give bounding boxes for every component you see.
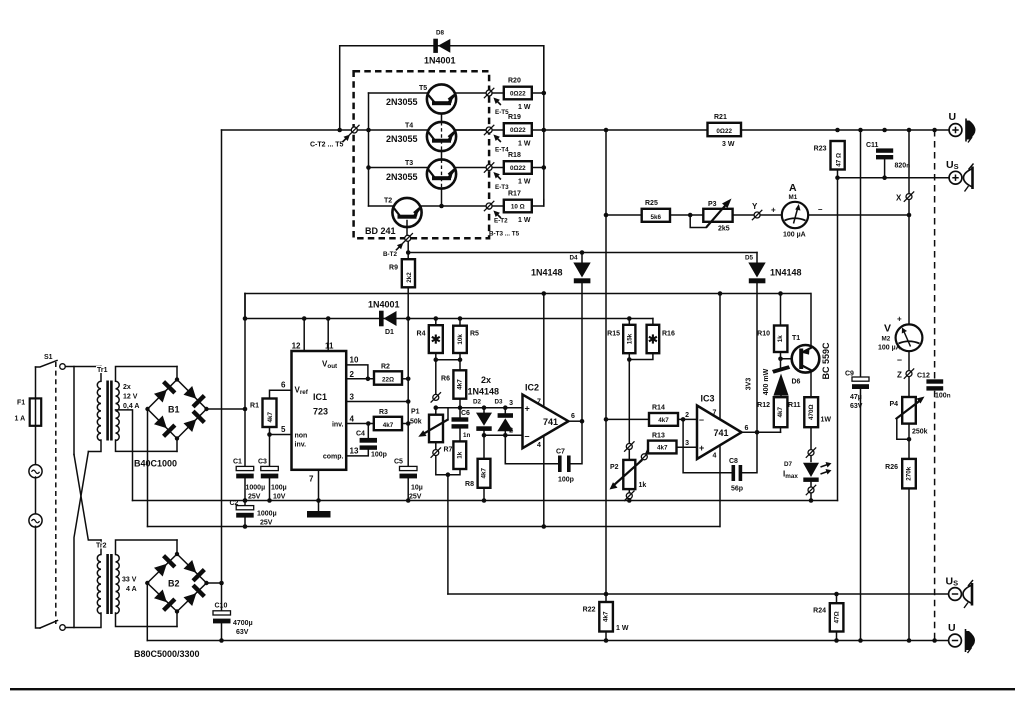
svg-text:2N3055: 2N3055 [386, 97, 418, 107]
wire: R4/R5 bottom link [436, 359, 460, 361]
IC1 723 voltage regulator [281, 342, 359, 484]
svg-text:R18: R18 [508, 152, 521, 159]
fuse F1 1A [15, 398, 42, 425]
wire: 0V rail of 12V section [133, 500, 838, 502]
svg-text:1 W: 1 W [518, 217, 531, 224]
svg-text:470Ω: 470Ω [808, 404, 815, 420]
svg-text:4k7: 4k7 [267, 411, 274, 422]
svg-text:U: U [948, 622, 956, 634]
resistor R14 4k7 [604, 405, 697, 426]
diode D8 1N4001 [424, 30, 456, 66]
svg-text:Tr2: Tr2 [96, 543, 107, 550]
B2 diode bottom-left [154, 590, 167, 603]
svg-text:B1: B1 [168, 405, 180, 415]
resistor R2 22R [374, 364, 408, 385]
wire: V meter column [908, 351, 910, 397]
dashed case/chassis line [934, 130, 936, 379]
svg-text:1 W: 1 W [518, 179, 531, 186]
transistor T5 2N3055 [386, 84, 486, 113]
wire: crossover column from top contact [73, 367, 75, 455]
svg-text:IC2: IC2 [525, 383, 539, 393]
svg-text:2k2: 2k2 [406, 272, 413, 283]
svg-text:3: 3 [350, 393, 355, 402]
svg-text:Tr1: Tr1 [97, 367, 108, 374]
dashed enclosure of power transistors [354, 71, 490, 238]
svg-text:2N3055: 2N3055 [386, 172, 418, 182]
diode D2 1N4148 [473, 399, 492, 459]
svg-text:47µ: 47µ [850, 394, 862, 401]
svg-text:2N3055: 2N3055 [386, 134, 418, 144]
wire: IC1 pin 7 to ground rail [318, 470, 320, 511]
wire: Tr1 primary bottom lead [88, 440, 101, 452]
svg-text:D7: D7 [784, 461, 793, 468]
svg-text:56p: 56p [731, 486, 743, 493]
svg-text:+: + [699, 443, 704, 453]
svg-text:4k7: 4k7 [657, 445, 668, 452]
node E-T2 [486, 203, 492, 209]
svg-text:R15: R15 [607, 331, 620, 338]
transformer Tr2 [96, 540, 177, 627]
wire: IC3 output [742, 431, 781, 433]
svg-text:250k: 250k [912, 429, 928, 436]
wire: Vcc line (IC1 pins 12/11, D1) [245, 318, 653, 320]
svg-text:11: 11 [325, 342, 334, 351]
svg-text:1 W: 1 W [518, 141, 531, 148]
svg-text:1N4148: 1N4148 [770, 268, 802, 278]
svg-text:C11: C11 [866, 142, 879, 149]
transistor T1 BC559C [781, 294, 832, 398]
svg-text:4k7: 4k7 [383, 422, 394, 429]
svg-text:D5: D5 [745, 255, 754, 262]
node pin3 sense [406, 399, 411, 404]
svg-text:R4: R4 [417, 331, 426, 338]
svg-text:T3: T3 [405, 160, 413, 167]
svg-text:C3: C3 [258, 459, 267, 466]
svg-text:R2: R2 [381, 364, 390, 371]
capacitor C8 56p (feedback) [683, 419, 757, 492]
svg-text:inv.: inv. [332, 422, 344, 429]
svg-text:7: 7 [713, 410, 717, 417]
wire: B1 plus output [207, 408, 246, 410]
B2 diode top-right [184, 560, 197, 573]
wire: top contact to Tr1 primary [65, 366, 101, 368]
svg-text:B-T2: B-T2 [383, 251, 397, 258]
wire: negative rail of 12V section [148, 526, 720, 528]
svg-text:R6: R6 [441, 376, 450, 383]
node R23 top [835, 128, 840, 133]
svg-text:10V: 10V [273, 494, 286, 501]
svg-text:4: 4 [350, 415, 355, 424]
capacitor C11 820n [866, 142, 910, 178]
wire: IC1 pin 3 [346, 401, 408, 403]
zener diode D6 3V3 400mW [746, 365, 801, 397]
op-amp IC2 741 [509, 291, 575, 529]
svg-text:comp.: comp. [323, 454, 344, 461]
svg-text:IC1: IC1 [313, 392, 327, 402]
wire: main output row (collector line / C-T2 to U+) [222, 129, 949, 131]
potentiometer P3 2k5 [690, 199, 753, 233]
svg-text:4k7: 4k7 [456, 379, 463, 390]
svg-text:D4: D4 [570, 255, 579, 262]
svg-text:25V: 25V [248, 494, 261, 501]
svg-text:4k7: 4k7 [777, 406, 784, 417]
svg-text:C12: C12 [917, 373, 930, 380]
svg-text:C9: C9 [845, 371, 854, 378]
diode D4 1N4148 [531, 250, 591, 421]
svg-text:5k6: 5k6 [651, 214, 662, 221]
svg-text:D3: D3 [495, 399, 504, 406]
svg-text:T2: T2 [384, 198, 392, 205]
svg-text:R25: R25 [645, 200, 658, 207]
svg-text:0,4 A: 0,4 A [123, 403, 139, 410]
svg-text:R11: R11 [788, 402, 801, 409]
resistor R12 4k7 [757, 397, 787, 432]
op-amp IC3 741 [685, 291, 748, 526]
svg-text:Z: Z [897, 371, 902, 380]
svg-text:2: 2 [509, 428, 513, 435]
svg-text:BC 559C: BC 559C [821, 342, 831, 380]
capacitor C2 1000u 25V [230, 498, 277, 529]
svg-text:R21: R21 [714, 114, 727, 121]
svg-text:–: – [897, 355, 902, 365]
svg-text:–: – [818, 205, 823, 214]
B1 diode bottom-right [184, 419, 197, 432]
svg-text:33 V: 33 V [122, 577, 137, 584]
svg-text:R23: R23 [814, 146, 827, 153]
transformer Tr1 [97, 367, 177, 452]
svg-text:1W: 1W [821, 417, 832, 424]
svg-text:1N4148: 1N4148 [468, 387, 500, 397]
potentiometer P1 50k [410, 408, 448, 450]
wire: B2 minus to U- rail [146, 583, 148, 641]
transistor T2 BD241 [365, 198, 486, 236]
wire: Vout column (R9 to C5) [407, 241, 409, 466]
wire: D8 protection branch [340, 46, 544, 130]
node Y [754, 212, 760, 218]
resistor R5 10k [453, 316, 479, 370]
transistor T4 2N3055 [386, 122, 486, 151]
wire: R23/US column down to 0V rail [837, 178, 839, 501]
node P1 bottom tap [433, 450, 439, 456]
svg-text:R8: R8 [465, 481, 474, 488]
svg-text:100 µA: 100 µA [783, 232, 806, 239]
svg-text:C1: C1 [233, 459, 242, 466]
svg-text:B-T3 ... T5: B-T3 ... T5 [489, 231, 520, 238]
potentiometer P4 250k [889, 397, 927, 459]
node Z [906, 371, 912, 377]
svg-text:100p: 100p [558, 477, 574, 484]
capacitor C9 47u 63V [845, 130, 869, 643]
svg-text:4k7: 4k7 [481, 468, 488, 479]
svg-text:63V: 63V [236, 629, 249, 636]
capacitor C4 100p [346, 424, 387, 459]
resistor R9 2k2 [389, 259, 415, 287]
svg-text:12: 12 [292, 342, 301, 351]
svg-text:M2: M2 [882, 336, 891, 343]
wire: Tr1 centre tap to 0V rail [116, 410, 133, 501]
svg-text:R5: R5 [470, 331, 479, 338]
svg-text:15k: 15k [626, 333, 633, 344]
svg-text:–: – [699, 415, 704, 425]
svg-text:P3: P3 [708, 201, 717, 208]
svg-text:Y: Y [752, 202, 758, 211]
svg-text:R19: R19 [508, 114, 521, 121]
moving coil meter A M1 100uA [771, 182, 823, 239]
terminal U plus [949, 111, 976, 143]
svg-text:+: + [897, 315, 902, 324]
diode D1 1N4001 [368, 300, 400, 337]
node C10 on U- rail [219, 638, 224, 643]
resistor R6 4k7 [441, 370, 466, 417]
wire: clamp line to D4/D5 [408, 252, 757, 254]
resistor R7 1k [444, 441, 467, 477]
svg-text:47 Ω: 47 Ω [835, 153, 842, 167]
capacitor C10 4700u 63V [213, 603, 253, 641]
terminal U minus [948, 622, 975, 653]
terminal US minus [946, 576, 974, 609]
svg-text:V: V [884, 323, 891, 335]
svg-text:C6: C6 [461, 410, 470, 417]
node case line top [932, 128, 937, 133]
resistor R17 10R 1W [492, 191, 544, 225]
wire: collector bus inside box [368, 93, 370, 206]
svg-text:25V: 25V [260, 520, 273, 527]
wire: T2 collector row [369, 205, 393, 207]
node C4 tap [366, 421, 371, 426]
svg-text:1 W: 1 W [518, 104, 531, 111]
node P1 top tap [433, 394, 439, 400]
node drive/clamp line [406, 250, 411, 255]
svg-text:2: 2 [350, 370, 355, 379]
svg-text:E-T2: E-T2 [494, 218, 508, 225]
svg-text:F1: F1 [17, 400, 25, 407]
capacitor C7 100p (feedback) [505, 421, 582, 483]
svg-text:–: – [525, 431, 530, 441]
svg-text:3: 3 [509, 400, 513, 407]
svg-text:inv.: inv. [295, 442, 307, 449]
svg-text:100p: 100p [371, 452, 387, 459]
svg-text:D1: D1 [385, 329, 394, 336]
ground bar [307, 511, 331, 518]
svg-text:B2: B2 [168, 579, 180, 589]
svg-text:IC3: IC3 [701, 394, 715, 404]
svg-text:400 mW: 400 mW [763, 368, 770, 395]
node main line / sense column [604, 128, 609, 133]
svg-text:1000µ: 1000µ [257, 511, 277, 518]
svg-text:7: 7 [537, 399, 541, 406]
node E-T4 [486, 127, 492, 133]
svg-text:C-T2 ... T5: C-T2 ... T5 [310, 142, 344, 149]
svg-text:22Ω: 22Ω [382, 377, 394, 384]
wire: ammeter negative wire [808, 214, 909, 216]
svg-text:R26: R26 [885, 464, 898, 471]
bridge rectifier B1 B40C1000 [134, 367, 209, 469]
svg-text:C4: C4 [356, 431, 365, 438]
wire: IC1 pin 4 to R3 [346, 423, 374, 425]
svg-text:10k: 10k [457, 334, 464, 345]
wire: voltage sense column [605, 130, 607, 602]
svg-text:R20: R20 [508, 78, 521, 85]
node C9 top [858, 128, 863, 133]
moving coil meter V M2 100uA [878, 315, 922, 365]
svg-text:1 A: 1 A [15, 416, 26, 423]
svg-text:1n: 1n [463, 432, 471, 439]
svg-text:1k: 1k [639, 482, 647, 489]
node case line bottom [932, 638, 937, 643]
node R2 out [406, 377, 411, 382]
svg-text:4: 4 [713, 453, 717, 460]
svg-text:1 W: 1 W [616, 625, 629, 632]
capacitor C5 10u 25V [394, 459, 423, 503]
svg-text:100n: 100n [935, 393, 951, 400]
node raw12/Vcc line [243, 316, 248, 321]
resistor R13 4k7 [646, 433, 697, 454]
svg-text:C7: C7 [556, 449, 565, 456]
svg-text:R7: R7 [444, 447, 453, 454]
AC source symbol 2 [29, 477, 42, 628]
resistor R15 15k [607, 316, 635, 359]
svg-text:1k: 1k [456, 451, 463, 459]
svg-text:3 W: 3 W [722, 141, 735, 148]
svg-text:P2: P2 [610, 464, 619, 471]
node T1 base [778, 357, 783, 362]
wire: bottom pole to Tr2 primary bottom [74, 613, 101, 628]
wire: emitter resistor bus [543, 46, 545, 206]
bottom frame line [10, 688, 1015, 690]
svg-text:U: U [949, 111, 957, 123]
wire: IC1 pin 11 lead [327, 319, 329, 352]
svg-text:0Ω22: 0Ω22 [510, 127, 526, 134]
resistor R1 4k7 [250, 390, 291, 437]
svg-text:T4: T4 [405, 123, 413, 130]
svg-text:R22: R22 [583, 607, 596, 614]
svg-text:R16: R16 [662, 331, 675, 338]
svg-text:63V: 63V [850, 403, 863, 410]
resistor R11 470R 1W [788, 397, 831, 449]
svg-text:5: 5 [281, 425, 286, 434]
svg-text:723: 723 [313, 407, 328, 417]
resistor R22 4k7 1W [583, 592, 629, 643]
svg-text:741: 741 [714, 428, 729, 438]
node E-T3 [486, 165, 492, 171]
svg-text:D2: D2 [473, 399, 482, 406]
svg-text:+: + [771, 206, 776, 215]
svg-text:0Ω22: 0Ω22 [510, 90, 526, 97]
wire: non-inv sense line (pin 3 row) [436, 407, 523, 409]
svg-text:10µ: 10µ [411, 485, 423, 492]
svg-text:X: X [896, 194, 902, 203]
bridge rectifier B2 B80C5000/3300 [134, 540, 209, 659]
svg-text:A: A [789, 182, 797, 194]
svg-text:R24: R24 [813, 608, 826, 615]
node D7 bottom tap [808, 487, 814, 493]
wire: US+ sense line [838, 177, 949, 179]
node X column top [907, 128, 912, 133]
wire: T5 collector row [369, 92, 427, 94]
AC source symbol 1 [29, 426, 42, 478]
resistor R26 270k [885, 459, 916, 643]
resistor R25 5k6 [642, 200, 704, 222]
svg-text:M1: M1 [789, 194, 798, 201]
B2 diode bottom-right [184, 593, 197, 606]
svg-text:R9: R9 [389, 265, 398, 272]
svg-text:R12: R12 [757, 402, 770, 409]
switch S1 (mains, bottom pole) [40, 621, 65, 631]
svg-text:270k: 270k [906, 466, 913, 481]
svg-text:2x: 2x [123, 384, 131, 391]
wire: R15/R16 column down to P2 [628, 360, 630, 444]
capacitor C1 1000u 25V [233, 407, 265, 503]
diode D5 1N4148 [745, 253, 802, 433]
svg-text:D6: D6 [792, 379, 801, 386]
svg-text:3: 3 [685, 440, 689, 447]
wire: US- sense rail [448, 593, 948, 595]
B2 diode top-left [154, 564, 167, 577]
node B2+ / 33V column [219, 581, 224, 586]
svg-text:R3: R3 [379, 409, 388, 416]
wire: R25/P3 row from sense column [604, 213, 609, 218]
wire: base chain T5-T4-T3 to T2 emitter row [441, 114, 443, 122]
capacitor C6 1n [452, 410, 471, 441]
wire: IC2 pin 2 row [484, 434, 523, 436]
wire: op-amp V+ rail [245, 293, 811, 295]
svg-text:R1: R1 [250, 403, 259, 410]
wire: X column [908, 130, 910, 325]
svg-text:T5: T5 [419, 85, 427, 92]
wire: T3 collector row [369, 167, 427, 169]
svg-text:1N4001: 1N4001 [424, 56, 456, 66]
resistor R19 0R22 1W [504, 114, 546, 148]
wire: IC2 output [568, 420, 582, 422]
capacitor C3 100u 10V [258, 435, 287, 503]
resistor R23 47R [814, 141, 845, 178]
svg-text:R14: R14 [652, 405, 665, 412]
svg-text:10: 10 [350, 356, 359, 365]
svg-text:R13: R13 [652, 433, 665, 440]
svg-text:12 V: 12 V [123, 394, 138, 401]
svg-text:4: 4 [537, 442, 541, 449]
node D7 top tap [808, 450, 814, 456]
resistor R20 0R22 1W [492, 78, 546, 112]
svg-text:C10: C10 [215, 603, 228, 610]
node D1 / Vout column [406, 316, 411, 321]
svg-text:4700µ: 4700µ [233, 620, 253, 627]
wire: IC1 pin 12 lead [303, 319, 305, 352]
node Vcc corner to V+ rail [244, 294, 246, 319]
svg-text:6: 6 [745, 425, 749, 432]
svg-text:741: 741 [543, 417, 558, 427]
transistor T3 2N3055 [386, 159, 486, 188]
resistor R3 4k7 [374, 409, 408, 430]
svg-text:P1: P1 [411, 409, 420, 416]
svg-text:4k7: 4k7 [658, 417, 669, 424]
B1 diode top-left [154, 390, 167, 403]
svg-text:47Ω: 47Ω [833, 611, 840, 623]
resistor R16 (select) [627, 319, 675, 362]
svg-text:6: 6 [281, 381, 286, 390]
svg-text:P4: P4 [889, 401, 898, 408]
node C11 top [882, 128, 887, 133]
svg-text:1000µ: 1000µ [246, 485, 266, 492]
node B-T2 [405, 235, 411, 241]
terminal US plus [946, 159, 974, 192]
LED D7 Imax [783, 456, 832, 487]
wire: U- bottom rail [147, 640, 948, 642]
svg-text:4k7: 4k7 [603, 611, 610, 622]
svg-text:R10: R10 [757, 331, 770, 338]
resistor R21 0R22 3W [708, 114, 742, 148]
svg-text:13: 13 [350, 447, 359, 456]
